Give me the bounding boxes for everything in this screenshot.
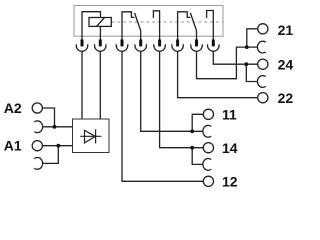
plug-in terminal 6 (172, 40, 184, 52)
plug-in terminal 8 (208, 40, 220, 52)
contact blade 1 (common, terminal 4) (135, 13, 141, 41)
terminal 14 socket (203, 159, 211, 171)
relay module outline (74, 6, 223, 37)
terminal A1 circle (32, 141, 42, 151)
NO contact 24 (staple from terminal 8) (207, 11, 214, 41)
wire terminal 8 to 24 (213, 51, 257, 82)
coil K1 (89, 18, 111, 27)
plug-in terminal 4 (135, 40, 146, 52)
terminal 11 socket (203, 125, 211, 137)
NC contact 12 (fixed terminal from terminal 3) (122, 12, 135, 41)
wire terminal 6 to 22 (178, 51, 258, 98)
plug-in terminal 3 (116, 40, 127, 52)
wire coil bottom to terminal 2 (99, 26, 101, 40)
svg-text:12: 12 (222, 173, 238, 189)
svg-text:11: 11 (222, 106, 237, 122)
diode box (73, 119, 110, 153)
wire terminal 2 to diode box (99, 51, 101, 119)
svg-text:14: 14 (222, 140, 238, 156)
wire A2 to diode box (42, 108, 72, 127)
wire terminal 1 to diode box (81, 51, 83, 119)
junction A1 (56, 144, 60, 148)
terminal A2 circle (32, 103, 42, 113)
terminal A2 socket (34, 121, 42, 133)
junction 14 (190, 146, 194, 150)
plug-in terminal 2 (95, 40, 106, 52)
contact blade 2 (common, terminal 7) (190, 13, 196, 41)
terminal 24 socket (257, 76, 265, 88)
plug-in terminal 1 (76, 40, 88, 52)
svg-text:24: 24 (278, 57, 294, 73)
terminal 21 circle (258, 24, 268, 34)
terminal 11 circle (203, 109, 213, 119)
junction 21 (245, 45, 249, 49)
plug-in terminal 7 (191, 40, 203, 52)
diode D1 (80, 129, 101, 143)
wire terminal 5 to 14 (160, 51, 204, 164)
junction A2 (53, 125, 57, 129)
terminal 14 circle (203, 143, 213, 153)
wire coil top to terminal 1 (82, 12, 101, 41)
wire terminal 7 to 21 (197, 29, 258, 79)
NO contact 14 (staple from terminal 5) (153, 11, 159, 41)
wire terminal 3 to 12 (122, 51, 203, 181)
svg-text:A1: A1 (4, 138, 22, 154)
svg-text:22: 22 (278, 90, 294, 106)
terminal 21 socket (257, 41, 265, 53)
mechanical linkage (dashed) (111, 21, 223, 23)
wire terminal 4 to 11 (141, 51, 204, 131)
terminal 22 circle (258, 93, 268, 103)
plug-in terminal 5 (154, 40, 166, 52)
junction 11 (190, 129, 194, 133)
svg-text:A2: A2 (4, 100, 22, 116)
svg-text:21: 21 (278, 22, 294, 38)
junction 24 (244, 62, 248, 66)
terminal 12 circle (203, 176, 213, 186)
terminal A1 socket (34, 158, 42, 170)
terminal 24 circle (258, 59, 268, 69)
wire A1 to diode box (42, 146, 72, 164)
NC contact 22 (fixed terminal from terminal 6) (178, 12, 191, 41)
